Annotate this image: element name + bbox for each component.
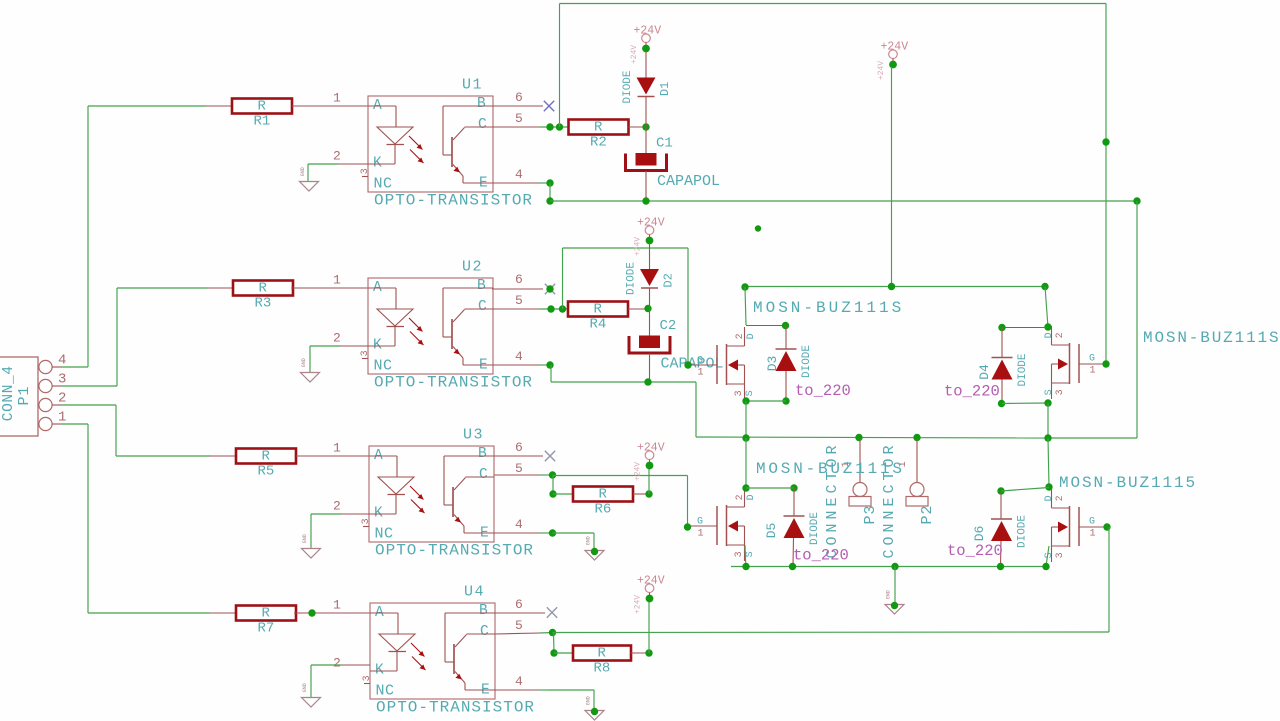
R7 left pin: [210, 612, 236, 614]
svg-text:NC: NC: [375, 526, 394, 543]
svg-text:NC: NC: [374, 176, 393, 193]
junction: [913, 434, 920, 441]
svg-text:R: R: [594, 120, 603, 136]
svg-text:1: 1: [698, 528, 704, 539]
resistor R6: [573, 487, 633, 518]
svg-text:3: 3: [1055, 552, 1066, 558]
svg-text:GND: GND: [886, 590, 892, 599]
svg-text:R: R: [594, 302, 603, 318]
junction: [1044, 399, 1051, 406]
wire 24V rail: [891, 67, 893, 286]
junction: [645, 649, 652, 656]
svg-text:C: C: [478, 117, 487, 133]
diode D2: [626, 262, 676, 295]
svg-text:1: 1: [1090, 365, 1096, 376]
wire 24V to D1: [645, 51, 647, 78]
D3 stem bottom: [785, 371, 787, 401]
wire E4 down: [593, 690, 595, 710]
junction: [642, 123, 649, 130]
junction: [684, 523, 691, 530]
P1 pin 4 line: [52, 366, 61, 368]
U1 pin5 line: [493, 126, 540, 128]
junction: [1102, 360, 1109, 367]
power +24V #5: [634, 574, 665, 614]
ground: [885, 590, 904, 614]
resistor R7: [236, 606, 296, 637]
D5 stem top: [793, 488, 795, 516]
D4 stem bottom: [1001, 380, 1003, 404]
power +24V #3: [877, 40, 908, 80]
junction: [549, 629, 556, 636]
wire: [540, 532, 553, 534]
wire ground bus: [731, 566, 1046, 568]
power +24V #2: [634, 216, 665, 256]
junction: [891, 563, 898, 570]
U3 pin5 line: [494, 474, 540, 476]
svg-text:S: S: [745, 390, 756, 396]
wire E2 down: [550, 365, 552, 382]
transistor Q4 (N-MOSFET): [1044, 489, 1106, 562]
no-connect X: [545, 284, 555, 294]
wire: [540, 182, 550, 184]
wire: [308, 163, 338, 165]
svg-text:D2: D2: [662, 273, 676, 287]
junction: [742, 434, 749, 441]
wire drain bus: [745, 286, 1045, 288]
svg-text:D: D: [746, 494, 757, 500]
R5 to U3 pin1: [296, 455, 369, 457]
svg-text:OPTO-TRANSISTOR: OPTO-TRANSISTOR: [375, 542, 534, 560]
wire Q2 drain: [1045, 287, 1048, 328]
wire: [540, 632, 552, 635]
P1 pin 3 line: [52, 385, 61, 387]
wire U1.5 up: [559, 4, 561, 128]
svg-text:3: 3: [360, 168, 371, 174]
resistor R3: [233, 281, 293, 312]
wire: [88, 105, 206, 107]
ground: [302, 683, 321, 707]
svg-text:NC: NC: [374, 358, 393, 375]
connector P3: [841, 439, 871, 506]
svg-text:+24V: +24V: [877, 61, 886, 80]
svg-text:2: 2: [333, 498, 341, 513]
junction: [1102, 138, 1109, 145]
wire K1 to gnd: [307, 164, 309, 181]
U2 pin4 line: [492, 364, 540, 366]
wire E3 right: [553, 532, 595, 534]
opto-transistor U4: [362, 584, 495, 700]
capacitor C2: [629, 318, 724, 373]
svg-text:GND: GND: [302, 683, 308, 692]
D1 to C1: [645, 97, 647, 153]
svg-text:1: 1: [333, 272, 341, 287]
wire: [311, 664, 341, 666]
svg-text:G: G: [1089, 516, 1095, 527]
svg-text:2: 2: [333, 330, 341, 345]
svg-text:R4: R4: [590, 316, 607, 332]
svg-text:to_220: to_220: [944, 382, 1000, 400]
ground: [585, 696, 604, 720]
opto-transistor U3: [361, 427, 494, 543]
U2 pin6 line: [492, 288, 543, 290]
wire K2 to gnd: [309, 346, 311, 372]
R1 to U1 pin1: [292, 105, 368, 107]
svg-text:B: B: [477, 278, 486, 294]
wire D5 top: [746, 487, 794, 489]
svg-text:4: 4: [515, 167, 523, 182]
svg-text:1: 1: [333, 440, 341, 455]
junction: [742, 484, 749, 491]
diode D5: [764, 512, 821, 545]
resistor R5: [236, 449, 296, 480]
wire D4 to source: [1002, 402, 1048, 405]
svg-text:B: B: [478, 446, 487, 462]
svg-text:D5: D5: [764, 523, 779, 539]
svg-text:R2: R2: [590, 134, 607, 150]
svg-text:1: 1: [698, 367, 704, 378]
junction: [782, 322, 789, 329]
svg-text:4: 4: [515, 517, 523, 532]
R3 left pin: [207, 287, 233, 289]
wire down to Q1 gate: [687, 248, 689, 365]
svg-text:GND: GND: [586, 536, 592, 545]
P1 pin 1 line: [52, 423, 61, 425]
capacitor C1: [626, 135, 721, 190]
wire P1.3 to R3: [116, 288, 118, 386]
wire: [310, 345, 340, 347]
svg-text:1: 1: [1090, 528, 1096, 539]
svg-text:R: R: [599, 487, 608, 503]
svg-text:G: G: [1089, 353, 1095, 364]
svg-text:R7: R7: [258, 620, 275, 636]
junction: [546, 197, 553, 204]
wire E2 drop: [695, 382, 697, 437]
svg-text:R: R: [259, 281, 268, 297]
svg-text:R: R: [262, 449, 271, 465]
junction: [1045, 483, 1052, 490]
C1 to bus: [645, 171, 647, 201]
svg-text:to_220: to_220: [947, 542, 1003, 560]
svg-text:DIODE: DIODE: [801, 345, 813, 378]
svg-text:G: G: [697, 355, 703, 366]
junction: [782, 397, 789, 404]
junction: [741, 283, 748, 290]
junction: [644, 378, 651, 385]
diode D1: [622, 70, 672, 103]
svg-text:GND: GND: [586, 696, 592, 705]
junction: [998, 324, 1005, 331]
wire P1.1 to R7: [87, 424, 89, 613]
ground: [300, 167, 319, 191]
svg-text:CAPAPOL: CAPAPOL: [661, 356, 724, 373]
transistor Q2 (N-MOSFET): [1044, 326, 1106, 399]
svg-text:to_220: to_220: [795, 382, 851, 400]
svg-text:E: E: [480, 526, 489, 542]
D4 stem top: [1001, 328, 1003, 358]
U2 pin5 line: [492, 308, 540, 310]
svg-text:GND: GND: [302, 534, 308, 543]
wire D3 top: [746, 325, 786, 327]
ground: [301, 358, 320, 382]
svg-text:3: 3: [362, 675, 373, 681]
svg-text:+24V: +24V: [881, 40, 909, 53]
svg-text:E: E: [481, 683, 490, 699]
wire R6 to 24V: [648, 467, 650, 494]
ground: [302, 534, 321, 558]
junction: [1133, 197, 1140, 204]
junction: [855, 434, 862, 441]
svg-text:GND: GND: [300, 167, 306, 176]
wire Q2 source down: [1047, 403, 1049, 438]
junction: [550, 649, 557, 656]
svg-text:GND: GND: [301, 358, 307, 367]
svg-text:CONNECTOR: CONNECTOR: [824, 441, 841, 558]
D2 to C2: [649, 288, 651, 336]
svg-text:DIODE: DIODE: [1017, 353, 1029, 386]
svg-text:4: 4: [515, 674, 523, 689]
wire P1.4 to R1: [87, 106, 89, 367]
junction: [642, 197, 649, 204]
wire E3 down: [593, 533, 595, 550]
junction: [742, 563, 749, 570]
svg-text:D: D: [1044, 495, 1055, 501]
svg-text:P1: P1: [16, 385, 33, 405]
junction: [645, 490, 652, 497]
svg-text:3: 3: [1055, 389, 1066, 395]
U4 pin5 line: [495, 633, 540, 634]
R3 to U2 pin1: [291, 287, 368, 289]
junction: [644, 305, 651, 312]
svg-text:+24V: +24V: [634, 237, 643, 256]
power +24V #4: [634, 441, 665, 481]
svg-text:3: 3: [361, 518, 372, 524]
wire over to gate: [563, 247, 689, 249]
U1 pin2 line: [338, 163, 368, 165]
svg-text:6: 6: [515, 597, 523, 612]
svg-text:C: C: [479, 467, 488, 483]
svg-text:G: G: [697, 516, 703, 527]
junction: [556, 123, 563, 130]
svg-text:3: 3: [360, 350, 371, 356]
junction: [646, 595, 654, 603]
wire Q3 source: [744, 545, 747, 566]
transistor Q3 (N-MOSFET): [689, 488, 757, 561]
svg-text:+24V: +24V: [630, 45, 639, 64]
svg-text:1: 1: [333, 597, 341, 612]
power +24V #1: [630, 24, 661, 64]
wire pin5 to gate Q4: [553, 631, 1110, 634]
wire: [61, 423, 88, 425]
svg-text:2: 2: [735, 333, 746, 339]
U2 pin2 line: [340, 345, 368, 347]
junction: [546, 179, 553, 186]
U1 pin6 line: [493, 105, 543, 107]
svg-text:+24V: +24V: [634, 595, 643, 614]
svg-text:+24V: +24V: [634, 24, 662, 37]
svg-text:NC: NC: [376, 683, 395, 700]
U3 pin2 line: [341, 513, 369, 515]
svg-text:5: 5: [515, 293, 523, 308]
svg-text:1: 1: [333, 90, 341, 105]
svg-text:2: 2: [1055, 332, 1066, 338]
junction: [546, 285, 553, 292]
svg-text:S: S: [745, 551, 756, 557]
wire K3 to gnd: [310, 514, 312, 548]
junction: [1103, 523, 1110, 530]
D6 stem bottom: [1000, 541, 1003, 566]
U3 pin4 line: [494, 532, 540, 534]
R5 left pin: [210, 455, 236, 457]
svg-text:DIODE: DIODE: [622, 70, 634, 103]
wire: [117, 287, 207, 289]
svg-text:2: 2: [333, 148, 341, 163]
wire: [540, 308, 568, 310]
svg-text:S: S: [1044, 389, 1055, 395]
svg-text:OPTO-TRANSISTOR: OPTO-TRANSISTOR: [374, 374, 533, 392]
svg-text:D1: D1: [658, 82, 672, 96]
no-connect X: [547, 607, 557, 617]
svg-text:CONN_4: CONN_4: [1, 365, 17, 421]
C2 to bus: [649, 354, 651, 383]
svg-text:P2: P2: [919, 504, 936, 524]
wire E1 down: [549, 183, 551, 201]
svg-text:MOSN-BUZ111S: MOSN-BUZ111S: [756, 460, 905, 478]
svg-text:5: 5: [515, 618, 523, 633]
junction: [546, 123, 553, 130]
wire K4 to gnd: [310, 665, 312, 697]
svg-text:B: B: [477, 96, 486, 112]
svg-text:5: 5: [515, 461, 523, 476]
wire bus E1: [550, 200, 1137, 202]
junction: [646, 462, 654, 470]
svg-text:2: 2: [58, 390, 66, 406]
wire: [540, 126, 568, 128]
svg-text:U1: U1: [462, 77, 483, 94]
no-connect X: [544, 101, 554, 111]
junction: [997, 563, 1004, 570]
wire to Q4 drain: [1048, 438, 1049, 487]
svg-text:OPTO-TRANSISTOR: OPTO-TRANSISTOR: [376, 699, 535, 717]
svg-text:DIODE: DIODE: [809, 512, 821, 545]
resistor R4: [568, 302, 628, 333]
svg-text:D6: D6: [972, 526, 987, 542]
svg-text:2: 2: [333, 655, 341, 670]
wire pin5 down: [552, 475, 554, 494]
wire: [540, 364, 550, 366]
junction: [1044, 434, 1051, 441]
svg-text:C2: C2: [660, 318, 677, 334]
svg-text:+24V: +24V: [637, 216, 665, 229]
wire Q4 source: [1046, 546, 1049, 566]
svg-text:C: C: [480, 624, 489, 640]
svg-text:6: 6: [515, 90, 523, 105]
wire down to Q3 gate: [687, 476, 689, 528]
junction: [549, 471, 556, 478]
wire U2.5 up: [562, 248, 564, 309]
svg-text:OPTO-TRANSISTOR: OPTO-TRANSISTOR: [374, 192, 533, 210]
R7 to U4 pin1: [294, 612, 370, 614]
svg-text:R5: R5: [258, 463, 275, 479]
junction: [755, 225, 761, 231]
wire: [311, 513, 341, 515]
svg-text:3: 3: [734, 551, 745, 557]
svg-text:MOSN-BUZ111S: MOSN-BUZ111S: [753, 299, 904, 317]
svg-text:5: 5: [515, 111, 523, 126]
junction: [684, 361, 691, 368]
resistor R8: [573, 646, 631, 677]
wire R8 to 24V: [648, 601, 650, 653]
junction: [742, 397, 749, 404]
svg-text:P3: P3: [862, 504, 879, 524]
svg-text:R: R: [598, 646, 607, 662]
svg-text:R: R: [258, 99, 267, 115]
svg-text:U4: U4: [464, 584, 485, 601]
R2 right pin: [629, 126, 647, 128]
junction: [789, 563, 796, 570]
svg-text:E: E: [479, 358, 488, 374]
svg-text:6: 6: [515, 440, 523, 455]
svg-text:CONNECTOR: CONNECTOR: [881, 441, 898, 558]
svg-text:4: 4: [515, 349, 523, 364]
U3 pin6 line: [494, 455, 543, 457]
junction: [308, 609, 315, 616]
D6 stem top: [1000, 491, 1002, 519]
diode D3: [765, 345, 813, 378]
svg-text:6: 6: [515, 272, 523, 287]
no-connect X: [545, 451, 555, 461]
wire to R8: [554, 652, 573, 654]
R8 right pin: [631, 652, 649, 654]
wire E4 right: [549, 689, 594, 691]
junction: [559, 305, 566, 312]
P1 pin 2 line: [52, 404, 61, 406]
wire Q1 drain: [745, 287, 746, 325]
junction: [549, 529, 556, 536]
svg-text:D: D: [746, 333, 757, 339]
svg-text:+24V: +24V: [637, 441, 665, 454]
svg-text:MOSN-BUZ1115: MOSN-BUZ1115: [1059, 474, 1197, 492]
diode D4: [977, 353, 1029, 386]
svg-text:3: 3: [734, 390, 745, 396]
junction: [646, 237, 654, 245]
wire to Q2 source: [1048, 437, 1137, 439]
svg-text:B: B: [479, 603, 488, 619]
svg-text:CAPAPOL: CAPAPOL: [657, 173, 720, 190]
svg-text:R6: R6: [595, 501, 612, 517]
junction: [1044, 323, 1051, 330]
svg-text:C1: C1: [656, 135, 673, 151]
svg-text:D: D: [1044, 332, 1055, 338]
junction: [549, 490, 556, 497]
wire pin5 to gate: [553, 475, 688, 477]
U1 pin4 line: [493, 182, 540, 184]
wire: [88, 612, 210, 614]
U4 pin2 line: [341, 664, 370, 666]
wire to Q2 gate: [1105, 4, 1107, 365]
connector P1 (CONN_4): [0, 352, 66, 436]
svg-text:D4: D4: [977, 364, 992, 380]
svg-text:+24V: +24V: [637, 574, 665, 587]
svg-text:S: S: [1044, 552, 1055, 558]
junction: [998, 400, 1005, 407]
U4 pin6 line: [495, 612, 545, 614]
junction: [997, 487, 1004, 494]
D5 stem bottom: [792, 538, 795, 566]
wire P1.2 to R5: [115, 405, 117, 456]
opto-transistor U2: [360, 259, 493, 375]
svg-text:+24V: +24V: [634, 462, 643, 481]
junction: [790, 484, 797, 491]
